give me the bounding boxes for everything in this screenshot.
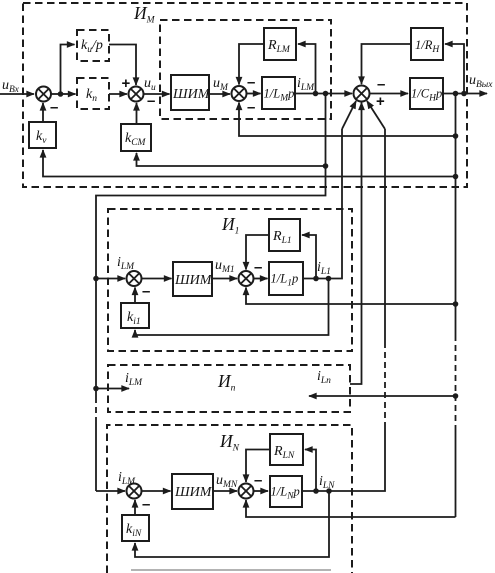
svg-text:–: –	[142, 283, 150, 300]
wire u_Вх input	[0, 93, 34, 95]
block k_i1	[121, 303, 149, 328]
label i_Ln	[317, 369, 331, 386]
wire k_v feedback line	[43, 150, 456, 177]
wire Σ3 output to 1/L_М p	[247, 93, 261, 95]
label И_N	[219, 431, 240, 454]
node u_Вых trunk at Σ3 return line	[453, 133, 459, 139]
dashed subsystem box И_N (last module), bottom edge beyond canvas	[107, 425, 352, 573]
block 1/L_N p	[270, 476, 302, 507]
wire ШИМN output to Σ2.N	[213, 490, 237, 492]
wire i_L1 output to riser	[303, 129, 342, 279]
summing junction Σ3 (inductor voltage)	[232, 86, 247, 101]
svg-text:–: –	[254, 259, 262, 276]
dashed subsystem box И_м (master module)	[23, 3, 467, 187]
svg-text:ШИМ: ШИМ	[174, 485, 213, 500]
minus sign at Σ4 top input	[377, 76, 385, 93]
minus sign at Σ3 bottom input	[247, 99, 255, 116]
block ШИМ1 (PWM of module 1)	[173, 262, 213, 296]
wire k_CM output up into Σ2	[136, 103, 138, 124]
wire ШИМ1 output to Σ2.1	[212, 278, 237, 280]
node u_Вых trunk at k_v line	[453, 174, 459, 180]
svg-text:–: –	[142, 496, 150, 513]
node i_LN to R_LN feedback	[313, 488, 319, 494]
wire k_i1 output up into Σ1.1	[134, 288, 136, 304]
svg-text:–: –	[247, 99, 255, 116]
block k_iN	[122, 515, 149, 541]
wire Σ2.1 output to 1/L_1 p	[254, 278, 268, 280]
wire faint cut-off line at canvas bottom	[131, 569, 331, 571]
block 1/L_1 p	[269, 262, 303, 295]
summing junction Σ1.N (current error of module N)	[127, 484, 142, 499]
minus sign at Σ2.N top input	[254, 472, 262, 489]
wire k_v output up into Σ1	[42, 103, 44, 122]
wire u_Вых feedback trunk down (solid part)	[455, 94, 457, 336]
svg-text:kи/p: kи/p	[81, 38, 103, 55]
label u_М	[213, 76, 229, 93]
minus sign at Σ1.1	[142, 283, 150, 300]
summing junction Σ2.1 (inductor voltage of module 1)	[239, 271, 254, 286]
label i_L1	[317, 260, 331, 277]
label u_Вх	[2, 78, 20, 95]
label i_LM at И_N input	[118, 470, 136, 487]
dashed subsystem box И_1 (slave module 1)	[108, 209, 352, 351]
wire k_iN feedback loop	[135, 491, 329, 557]
dashed subsystem box И_n (generic module n)	[108, 365, 350, 412]
block k_v	[29, 122, 56, 148]
svg-text:–: –	[50, 99, 58, 116]
wire Σ2.N output to 1/L_N p	[254, 490, 269, 492]
label i_LM at И_n input	[125, 371, 143, 388]
wire k_CM feedback line	[137, 153, 326, 166]
wire u_Вых return into И_n	[309, 395, 456, 397]
node i_LM trunk at И_1	[93, 276, 99, 282]
label И_м	[133, 3, 156, 26]
wire Σ1.N output to ШИМN	[142, 490, 171, 492]
block k_И/p (integrator, dashed)	[77, 30, 109, 61]
wire Σ4 output to 1/C_н p	[370, 93, 409, 95]
wire u_Вых return into Σ3 bottom	[239, 103, 456, 137]
inner dashed box (power stage of master)	[160, 20, 331, 119]
wire i_LN riser dashed continuation and diagonal into Σ4	[367, 101, 385, 428]
minus sign at Σ2 bottom input	[147, 93, 155, 110]
summing junction Σ1.1 (current error of module 1)	[127, 271, 142, 286]
node output to feedback	[453, 91, 459, 97]
summing junction Σ1 (voltage error)	[36, 87, 51, 102]
block 1/L_М p	[262, 77, 295, 109]
wire i_LM sense down and left (to k_CM and slave modules)	[96, 94, 326, 279]
svg-text:–: –	[377, 76, 385, 93]
minus sign at Σ1.N	[142, 496, 150, 513]
label i_LN	[319, 474, 335, 491]
wire node A to k_П	[61, 93, 76, 95]
wire Σ1.1 output to ШИМ1	[142, 278, 172, 280]
wire output u_Вых	[443, 93, 487, 95]
node u_Вых trunk at И_1 return line	[453, 301, 459, 307]
node i_LM trunk at И_n	[93, 386, 99, 392]
block R_L1	[269, 219, 300, 251]
node u_Вых trunk at И_n return line	[453, 393, 459, 399]
wire Σ2 output to ШИМ	[144, 93, 170, 95]
label u_М1	[215, 258, 235, 275]
minus sign at Σ1	[50, 99, 58, 116]
summing junction Σ4 (capacitor current node)	[354, 86, 370, 102]
wire up to R_L1 input	[302, 235, 316, 279]
wire to 1/R_н input	[445, 44, 464, 94]
wire up to R_LM input	[298, 44, 316, 94]
wire R_LN output down into Σ2.N	[246, 450, 270, 483]
block R_LN	[270, 434, 303, 465]
node i_L1 to R_L1 feedback	[313, 276, 319, 282]
node i_LM feedback to R_LM	[313, 91, 319, 97]
label u_Вых	[469, 73, 493, 90]
node i_LM current sense tap	[323, 91, 329, 97]
wire k_И/p output down into Σ2	[109, 45, 136, 86]
wire u_Вых return into Σ2.1 bottom	[246, 288, 456, 305]
node i_LN to k_iN feedback	[326, 488, 332, 494]
svg-text:–: –	[254, 472, 262, 489]
summing junction Σ2.N (inductor voltage of module N)	[239, 484, 254, 499]
wire u_Вых return into Σ2.N bottom	[246, 500, 456, 517]
wire i_LM trunk dashed continuation	[95, 279, 97, 492]
node on sense wire at k_CM line	[323, 163, 329, 169]
block 1/R_н	[411, 28, 443, 60]
plus sign at Σ4 bottom input	[376, 93, 385, 110]
wire Σ1 output to node A	[51, 93, 61, 95]
svg-text:ШИМ: ШИМ	[174, 273, 213, 288]
plus sign at Σ2 top input	[122, 75, 131, 92]
block k_CM	[121, 124, 151, 151]
wire u_Вых trunk dashed continuation	[455, 335, 457, 517]
wire i_L1 diagonal into Σ4	[342, 101, 356, 129]
svg-text:+: +	[376, 93, 385, 110]
svg-text:ШИМ: ШИМ	[172, 87, 211, 102]
wire up to R_LN input	[305, 450, 316, 492]
wire R_L1 output down into Σ2.1	[246, 235, 269, 270]
wire k_П output to Σ2	[109, 93, 127, 95]
label i_LM at И_1 input	[117, 255, 135, 272]
label i_LM	[297, 76, 315, 93]
block 1/C_н p	[410, 78, 443, 109]
wire k_iN output up into Σ1.N	[134, 500, 136, 515]
wire i_LM into Σ1.1	[96, 278, 125, 280]
wire R_LM output down into Σ3	[239, 44, 264, 85]
minus sign at Σ3 top input	[247, 74, 255, 91]
label И_n	[217, 371, 236, 394]
label u_МN	[216, 473, 238, 490]
wire 1/R_н output down into Σ4	[362, 44, 412, 84]
summing junction Σ2 (regulator output)	[129, 87, 144, 102]
block k_П (proportional, dashed)	[77, 78, 109, 109]
node A (branch to integrator)	[58, 91, 64, 97]
wire i_LM into И_n	[96, 388, 129, 390]
wire k_i1 feedback loop	[135, 279, 329, 336]
wire ШИМ output to Σ3	[209, 93, 230, 95]
wire i_LM to Σ4	[295, 93, 352, 95]
wire i_LM into Σ1.N	[96, 490, 125, 492]
block ШИМN (PWM of module N)	[172, 474, 213, 509]
block ШИМ (PWM of master)	[171, 75, 211, 110]
wire i_Ln out of И_n up to Σ4	[350, 103, 362, 385]
svg-text:–: –	[247, 74, 255, 91]
node output to 1/R_н	[461, 91, 467, 97]
block R_LM	[264, 28, 296, 60]
node i_L1 to k_i1 feedback	[326, 276, 332, 282]
wire i_LN output to riser	[302, 428, 385, 491]
svg-text:–: –	[147, 93, 155, 110]
label И_1	[221, 214, 239, 237]
wire branch up to k_И/p	[61, 45, 75, 95]
label u_и	[144, 76, 156, 93]
minus sign at Σ2.1 top input	[254, 259, 262, 276]
